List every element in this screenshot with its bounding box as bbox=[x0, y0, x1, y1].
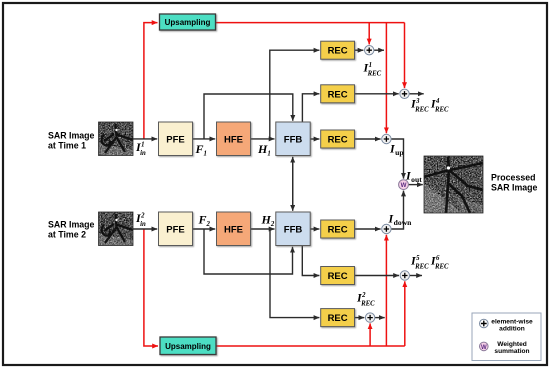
svg-text:Upsampling: Upsampling bbox=[165, 342, 211, 351]
wire: REC2 to plus2 bbox=[355, 93, 399, 95]
red wire: top Upsampling output horizontal bbox=[216, 22, 405, 24]
red wire: branch to plus2 bbox=[404, 23, 406, 88]
wire: H2 branch down to REC6 bbox=[270, 229, 319, 318]
svg-text:HFE: HFE bbox=[224, 135, 243, 146]
wire: SAR2 to PFE2 bbox=[133, 228, 157, 230]
processed SAR image bbox=[424, 156, 483, 213]
plus node 5 bbox=[400, 271, 409, 280]
FFB box stream2 bbox=[276, 212, 310, 246]
svg-text:PFE: PFE bbox=[166, 135, 184, 146]
plus node 3 bbox=[382, 134, 391, 143]
legend plus icon bbox=[480, 319, 489, 328]
wire: FFB1 right output to REC3 bbox=[310, 138, 319, 140]
red wire: I2in down to bottom Upsampling bbox=[144, 229, 158, 346]
wire: PFE2 to HFE2 bbox=[193, 228, 216, 230]
svg-text:FFB: FFB bbox=[284, 225, 303, 236]
plus node 2 bbox=[400, 89, 409, 98]
REC box row6 bbox=[321, 309, 355, 327]
svg-text:SAR Image: SAR Image bbox=[48, 131, 95, 141]
svg-text:element-wise: element-wise bbox=[491, 319, 533, 326]
svg-text:Upsampling: Upsampling bbox=[165, 18, 211, 27]
wire: plus4 output up to W bbox=[391, 191, 404, 229]
red wire: branch to plus5 bbox=[404, 281, 406, 346]
wire: FFB2 right output to REC4 bbox=[310, 228, 319, 230]
red wire: branch to plus1 bbox=[368, 23, 370, 45]
wire: REC3 to plus3 bbox=[355, 138, 381, 140]
red wire: branch to plus4 bbox=[385, 235, 387, 346]
wire: H1 branch up to REC1 bbox=[270, 50, 320, 139]
svg-text:REC: REC bbox=[328, 46, 348, 57]
wire: REC5 to plus5 bbox=[355, 275, 400, 277]
svg-text:Weighted: Weighted bbox=[497, 341, 527, 348]
wire: F1 branch into FFB1 top bbox=[204, 94, 293, 139]
legend box bbox=[472, 313, 541, 361]
plus node 1 bbox=[365, 46, 374, 55]
PFE box stream1 bbox=[159, 122, 193, 156]
wire: FFB1 up output to REC2 bbox=[302, 94, 319, 122]
svg-text:REC: REC bbox=[328, 225, 348, 236]
SAR image thumbnail 2 bbox=[99, 212, 134, 246]
wire: F2 branch into FFB2 bottom bbox=[204, 229, 293, 274]
red wire: bottom Upsampling output horizontal bbox=[216, 345, 405, 347]
wire: HFE2 to FFB2 bbox=[251, 228, 275, 230]
wire: plus3 output down to W bbox=[391, 139, 404, 179]
REC box row5 bbox=[321, 267, 355, 285]
HFE box stream2 bbox=[217, 212, 251, 246]
svg-text:W: W bbox=[401, 182, 407, 189]
svg-text:summation: summation bbox=[494, 348, 529, 355]
wire: REC1 to plus1 bbox=[355, 49, 364, 51]
REC box row1 bbox=[321, 41, 355, 59]
REC box row4 bbox=[321, 220, 355, 238]
svg-text:SAR Image: SAR Image bbox=[491, 183, 538, 193]
svg-text:addition: addition bbox=[499, 326, 525, 333]
svg-text:W: W bbox=[481, 345, 487, 351]
W node weighted summation bbox=[399, 180, 409, 190]
HFE box stream1 bbox=[217, 122, 251, 156]
REC box row2 bbox=[321, 85, 355, 103]
Upsampling box top bbox=[160, 14, 216, 30]
wire: HFE1 to FFB1 bbox=[251, 138, 275, 140]
REC box row3 bbox=[321, 130, 355, 148]
wire: plus5 output stub bbox=[409, 275, 422, 277]
wire: REC4 to plus4 bbox=[355, 228, 381, 230]
svg-text:at Time 1: at Time 1 bbox=[48, 141, 86, 151]
red wire: I1in up to Upsampling top bbox=[144, 23, 158, 139]
svg-text:Processed: Processed bbox=[491, 173, 536, 183]
svg-text:REC: REC bbox=[328, 313, 348, 324]
svg-text:HFE: HFE bbox=[224, 225, 243, 236]
svg-text:FFB: FFB bbox=[284, 135, 303, 146]
plus node 4 bbox=[382, 224, 391, 233]
svg-text:REC: REC bbox=[328, 89, 348, 100]
svg-text:at Time 2: at Time 2 bbox=[48, 230, 86, 240]
svg-text:REC: REC bbox=[328, 271, 348, 282]
wire: REC6 to plus6 bbox=[355, 317, 365, 319]
svg-text:REC: REC bbox=[328, 135, 348, 146]
wire: FFB2 down output to REC5 bbox=[302, 246, 319, 276]
PFE box stream2 bbox=[159, 212, 193, 246]
red wire: branch to plus6 bbox=[369, 323, 371, 346]
wire: PFE1 to HFE1 bbox=[193, 138, 216, 140]
legend W icon bbox=[480, 342, 489, 351]
wire: plus2 output stub bbox=[409, 93, 424, 95]
Upsampling box bottom bbox=[160, 337, 216, 355]
FFB box stream1 bbox=[276, 122, 310, 156]
wire: FFB1-FFB2 exchange double arrow bbox=[292, 157, 294, 211]
wire: SAR1 to PFE1 bbox=[133, 138, 157, 140]
svg-text:PFE: PFE bbox=[166, 225, 184, 236]
wire: plus1 output stub bbox=[374, 49, 384, 51]
red wire: branch to plus3 bbox=[385, 23, 387, 134]
plus node 6 bbox=[365, 313, 374, 322]
wire: plus6 output stub bbox=[375, 317, 385, 319]
svg-text:SAR Image: SAR Image bbox=[48, 220, 95, 230]
SAR image thumbnail 1 bbox=[99, 122, 134, 156]
wire: W output to processed image bbox=[408, 184, 423, 186]
